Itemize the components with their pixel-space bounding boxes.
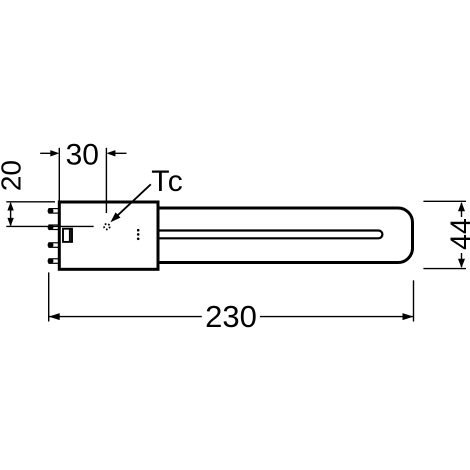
- dim 230 right extension line: [413, 280, 415, 321]
- dim 44 top extension line: [423, 200, 466, 202]
- pin 4: [48, 259, 60, 264]
- dim 44 bottom extension line: [423, 268, 466, 270]
- dim 44 top arrow: [458, 202, 465, 217]
- dim 230 line left segment: [49, 313, 202, 320]
- key notch: [63, 229, 72, 242]
- tube outline: [158, 208, 413, 263]
- lamp base: [59, 202, 158, 269]
- svg-text:44: 44: [445, 218, 470, 250]
- svg-text:20: 20: [0, 160, 27, 191]
- pin 3: [48, 243, 60, 248]
- pin 1: [48, 208, 60, 213]
- dim 30 left arrow: [40, 150, 59, 156]
- dim 230 left extension line: [48, 272, 50, 321]
- dim 30 right extension line: [105, 148, 107, 213]
- pin 2: [48, 225, 60, 230]
- tube slot: [158, 231, 382, 239]
- vent dots: [137, 229, 140, 240]
- dim 20 top extension line: [6, 201, 55, 203]
- svg-text:Tc: Tc: [151, 165, 184, 198]
- dim 230 line right segment: [260, 313, 414, 320]
- dim 30 left extension line: [58, 148, 60, 201]
- dim 20 arrow: [7, 202, 13, 226]
- svg-text:30: 30: [66, 139, 99, 172]
- svg-text:230: 230: [205, 299, 257, 334]
- dim 30 right arrow: [106, 150, 126, 156]
- Tc arrow: [108, 184, 151, 225]
- Tc point: [104, 224, 110, 230]
- dim 44 bottom arrow: [458, 253, 465, 268]
- Tc level line: [6, 225, 93, 227]
